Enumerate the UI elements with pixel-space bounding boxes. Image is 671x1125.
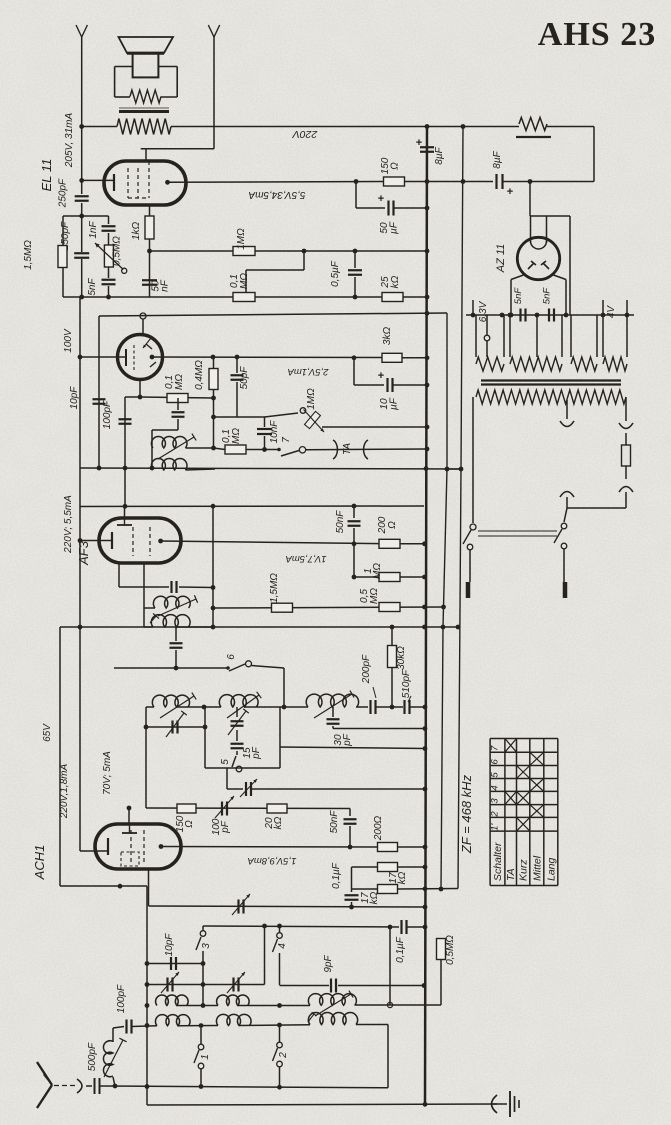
wire y506 line: [80, 505, 424, 508]
AF3 grid dashes: [132, 527, 134, 556]
svg-text:µF: µF: [389, 221, 400, 234]
wire 0.5uF bottom: [354, 277, 356, 297]
switch 4 lever: [273, 939, 278, 952]
wire fuse out: [625, 466, 627, 479]
svg-text:pF: pF: [251, 746, 262, 760]
table X marks: [505, 739, 517, 753]
capacitor 200pF: [369, 700, 371, 714]
resistor 1MΩ y251: [233, 247, 255, 256]
svg-text:250pF: 250pF: [58, 178, 69, 208]
svg-text:50nF: 50nF: [329, 810, 340, 834]
capacitor 9pF: [330, 979, 332, 993]
switch 1 lever: [194, 1050, 199, 1063]
wire 200p-510p: [376, 706, 404, 708]
node bus 627: [625, 313, 630, 318]
svg-text:Ω: Ω: [387, 521, 398, 529]
wire y607 line: [213, 607, 444, 608]
wire B to coil line: [440, 960, 442, 1006]
svg-text:10pF: 10pF: [69, 386, 80, 410]
wire 100pF drop: [124, 397, 126, 506]
svg-text:8µF: 8µF: [434, 146, 445, 164]
wire 220V right: [547, 126, 594, 128]
wire 1nF to pot: [108, 233, 110, 245]
node 220V rail A: [425, 124, 430, 129]
capacitor 1nF: [102, 225, 116, 227]
wire 200 to railA: [398, 846, 426, 848]
svg-text:220V; 5,5mA: 220V; 5,5mA: [63, 495, 74, 554]
svg-text:kΩ: kΩ: [273, 816, 284, 829]
wire 0,4M top: [213, 357, 215, 369]
resistor 150Ω ACH1: [177, 804, 196, 813]
svg-text:50pF: 50pF: [239, 366, 250, 390]
node y867 rail: [423, 865, 428, 870]
ACH1 anode node: [159, 844, 164, 849]
osc coil C5: [216, 1014, 251, 1025]
wire A1-A2: [177, 706, 222, 708]
wire 10uF h: [354, 384, 384, 386]
capacitor 5nF left: [519, 309, 521, 322]
svg-text:+: +: [416, 137, 422, 149]
TA jack right: [364, 440, 368, 459]
wire box left: [204, 707, 206, 768]
pot wiper ring: [122, 268, 127, 273]
node plate 237: [235, 355, 240, 360]
speaker voice coil: [133, 53, 159, 77]
wire y789 line: [251, 788, 425, 790]
node sw2 y1087: [277, 1085, 282, 1090]
wire coil1b right: [186, 469, 216, 470]
node 100V rail A: [425, 311, 430, 316]
output transformer primary: [117, 119, 171, 135]
wire pot to 5nF: [108, 267, 110, 278]
wire y1086 line: [147, 1086, 388, 1088]
wire 50uF stub: [355, 182, 357, 209]
trimmer padder: [237, 900, 239, 914]
switch 1 ring top: [198, 1044, 204, 1050]
node ant y1086: [113, 1084, 118, 1089]
wire 220V line mid: [171, 126, 519, 128]
switch 3 ring: [200, 931, 206, 937]
antenna cup: [77, 1079, 82, 1093]
wire 0.5uF top: [354, 251, 356, 268]
trimmer 100pF ACH1: [221, 802, 223, 816]
wire 5nF bottom: [108, 286, 110, 297]
node x392 y707: [390, 705, 395, 710]
wire primary right down: [625, 397, 627, 421]
capacitor 100pF ABC1: [119, 418, 132, 420]
wire AF3 grid up: [124, 506, 126, 518]
speaker terminal fork right: [208, 25, 214, 37]
capacitor 0,5µF: [348, 269, 362, 271]
trimmer T1: [171, 721, 173, 734]
wire y508 run: [567, 507, 626, 509]
capacitor 30pF: [327, 718, 340, 720]
switch 6 contact: [226, 666, 230, 670]
node y668 176: [174, 666, 179, 671]
wire 15p down: [236, 751, 238, 755]
svg-text:Lang: Lang: [545, 857, 557, 881]
heater winding 1: [476, 357, 504, 371]
wire box right: [279, 707, 281, 768]
node y984 203: [201, 982, 206, 987]
node y963 147: [145, 961, 150, 966]
wire winding1 stub L: [475, 315, 477, 357]
wire x99 drop: [98, 316, 100, 468]
svg-text:MΩ: MΩ: [369, 588, 380, 604]
node sw6 y707: [282, 705, 287, 710]
pot 1MΩ ring: [300, 408, 306, 414]
wire winding3 stub L: [570, 315, 572, 357]
wire 100p to C4: [132, 1025, 158, 1028]
node coil1a 213: [211, 446, 216, 451]
mains primary winding: [476, 390, 626, 404]
node y506 213: [211, 504, 216, 509]
wire cathode to rail: [82, 179, 114, 181]
node 200 rail: [422, 541, 427, 546]
trimmer y789: [245, 782, 247, 796]
ACH1 top tee: [122, 832, 137, 834]
selector cup upper: [560, 421, 574, 427]
node bus 551: [550, 314, 552, 316]
AF3 anode node: [158, 539, 163, 544]
wire y963 line: [147, 963, 203, 965]
svg-text:MΩ: MΩ: [174, 374, 185, 390]
tube ABC1 envelope: [118, 335, 163, 380]
svg-text:1nF: 1nF: [88, 220, 99, 238]
svg-text:500pF: 500pF: [87, 1042, 98, 1071]
wire tap stub: [486, 315, 488, 335]
svg-text:AF3: AF3: [76, 540, 91, 566]
svg-text:1,5MΩ: 1,5MΩ: [269, 573, 280, 603]
wire y668 line: [114, 667, 227, 669]
resistor 17kΩ a: [378, 863, 398, 872]
node y927 264: [262, 924, 267, 929]
wire 9pF to rail: [338, 985, 424, 987]
resistor 20kΩ: [267, 804, 287, 813]
wire 30k to caps: [391, 701, 393, 707]
wire cup to gnd: [492, 1103, 507, 1105]
node y927 390: [388, 925, 393, 930]
wire y668 right: [252, 666, 285, 669]
osc coil C3: [308, 994, 356, 1006]
wire heater bus: [466, 314, 634, 316]
wire ACH1 grid line: [146, 807, 350, 810]
node bus 566: [564, 313, 569, 318]
AF3 cathode: [111, 532, 113, 549]
svg-text:3kΩ: 3kΩ: [382, 327, 393, 346]
wire 17ka to rail: [398, 866, 426, 868]
wire y417 run: [214, 416, 266, 418]
wire x147 long: [146, 886, 148, 1105]
node y627 railC: [456, 625, 461, 630]
wire capb down: [175, 650, 177, 668]
AZ11 anode left: [528, 263, 534, 269]
svg-text:0,5µF: 0,5µF: [330, 260, 341, 287]
svg-text:100pF: 100pF: [116, 984, 127, 1013]
node y886: [118, 884, 123, 889]
ACH1 triode box: [121, 852, 139, 866]
node pot rail: [425, 425, 430, 430]
svg-text:1MΩ: 1MΩ: [236, 228, 247, 250]
AF3 top grid tee: [117, 524, 132, 526]
wire sw2 top: [279, 1027, 281, 1042]
wire sw3 drop: [202, 951, 204, 963]
node y907 rail: [423, 905, 428, 910]
wire coil1a right: [186, 447, 214, 449]
svg-text:1,5MΩ: 1,5MΩ: [23, 240, 34, 270]
wire 10uF to rail: [393, 384, 427, 386]
wire 50nF ACH1 drop: [349, 809, 351, 817]
wire 50nF to plate: [353, 528, 355, 577]
svg-text:1kΩ: 1kΩ: [131, 222, 142, 241]
wire C2-C3: [238, 1005, 310, 1007]
wire 0,1uF to y907: [351, 902, 353, 907]
node 100pF y468: [123, 466, 128, 471]
svg-text:µF: µF: [389, 397, 400, 410]
svg-text:Ω: Ω: [184, 820, 195, 828]
fuse: [622, 445, 631, 466]
wire 30pF down: [332, 726, 334, 729]
switch 3 lever: [196, 937, 201, 950]
wire A2-A3: [244, 706, 308, 708]
svg-text:5,5V,34,5mA: 5,5V,34,5mA: [248, 189, 305, 200]
AF3 coil a: [153, 596, 190, 608]
node y607 railB: [441, 605, 446, 610]
wire capb stub: [175, 627, 177, 641]
osc coil C6: [308, 1013, 357, 1025]
antenna symbol: [37, 1062, 52, 1085]
svg-text:220V,1,8mA: 220V,1,8mA: [59, 764, 70, 820]
osc coil C4: [155, 1015, 190, 1026]
node y748 rail: [423, 746, 428, 751]
wire winding2 stub R: [561, 315, 563, 357]
svg-text:Schalter: Schalter: [492, 842, 504, 881]
capacitor 50µF +: [387, 201, 389, 216]
EL11 grid dashes: [127, 168, 129, 198]
wire C4-C5: [178, 1025, 218, 1027]
wire x146 filter left: [145, 707, 147, 808]
resistor 1MΩ AF3: [379, 573, 400, 582]
wire to 100pF: [125, 396, 140, 398]
wire pot to rail: [322, 426, 427, 428]
RF coil A1 adjuster: [160, 696, 194, 718]
capacitor 15pF: [231, 743, 244, 745]
trimmer T2: [231, 720, 244, 722]
wire rail seg1: [81, 127, 83, 195]
switch 6 ring: [246, 661, 252, 667]
node x147 y1005: [145, 1003, 150, 1008]
output transformer secondary: [119, 110, 169, 113]
wire to fuse: [625, 433, 627, 445]
node y789 rail: [423, 787, 428, 792]
wire 1.5M bottom: [62, 267, 64, 297]
node y627 railB: [441, 625, 446, 630]
svg-text:kΩ: kΩ: [397, 871, 408, 884]
node y984 147: [145, 982, 150, 987]
wire sw5 down: [226, 768, 228, 789]
node y251 0.5uF: [353, 249, 358, 254]
wire T2 stub: [236, 707, 238, 717]
capacitor coil coupling: [172, 411, 185, 413]
ring x390 y1005: [387, 1002, 392, 1007]
node plate rail C: [461, 179, 466, 184]
svg-text:4: 4: [490, 785, 501, 790]
wire plate line: [168, 181, 385, 184]
pot 1MΩ body: [305, 411, 321, 428]
node x147 y1086: [145, 1084, 150, 1089]
svg-text:AHS 23: AHS 23: [538, 16, 656, 53]
speaker magnet frame: [115, 66, 133, 68]
wire x213 down: [212, 506, 214, 627]
svg-text:2: 2: [278, 1052, 289, 1059]
wire x351 drop2: [351, 889, 353, 892]
wire y251 line: [150, 250, 428, 252]
node 213 y587: [211, 585, 216, 590]
node y297 0.5uF: [353, 295, 358, 300]
wire 100V line: [99, 313, 447, 316]
svg-text:200Ω: 200Ω: [373, 815, 384, 841]
node y468 99: [97, 466, 102, 471]
resistor 25kΩ: [382, 293, 403, 302]
wire y889 line: [352, 888, 378, 890]
wire AF3 bottom jog: [143, 563, 145, 587]
RF coil A1: [152, 695, 189, 707]
resistor 0,1MΩ y297: [233, 293, 255, 302]
RF coil A2: [219, 695, 258, 707]
node y251 left: [147, 249, 152, 254]
wire ant to cap: [86, 1085, 92, 1087]
wire 1M line: [354, 576, 379, 578]
RF coil A3 adjuster: [314, 694, 352, 718]
node plate 354: [352, 355, 357, 360]
node avc 10nF: [262, 447, 267, 452]
fuse cup lower: [619, 487, 633, 493]
wire primary tap: [566, 400, 568, 419]
mains plug prong left: [466, 582, 471, 598]
wire AZ11 cathode left: [511, 275, 524, 280]
wire y867 line: [352, 866, 378, 868]
svg-text:EL 11: EL 11: [39, 159, 54, 192]
wire sw4 drop: [279, 953, 281, 985]
node bus 603: [601, 313, 606, 318]
wire C6 right jog: [356, 1024, 388, 1026]
node y927 rail: [423, 925, 428, 930]
svg-text:TA: TA: [342, 443, 353, 455]
fuse cup upper: [619, 423, 633, 429]
node AF3 cath rail: [78, 538, 83, 543]
svg-text:1,5V,9,8mA: 1,5V,9,8mA: [248, 855, 297, 866]
switch 7 ring: [299, 447, 305, 453]
svg-text:pF: pF: [342, 733, 353, 747]
capacitor 10pF osc: [170, 957, 172, 970]
resistor 0,4MΩ: [209, 369, 218, 390]
switch 7 lever: [281, 451, 299, 457]
voltage selector ring: [470, 524, 476, 530]
node cathode rail: [79, 178, 84, 183]
node jog B: [445, 467, 450, 472]
wire sw1 top: [200, 1028, 202, 1044]
wire sw3 stub: [202, 926, 204, 931]
wire 1.5M top: [62, 216, 64, 246]
wire step: [303, 251, 305, 270]
wire winding2 stub L: [509, 315, 511, 357]
wire fuse down: [625, 492, 627, 508]
wire plug right: [563, 549, 565, 582]
svg-text:9pF: 9pF: [323, 954, 334, 972]
capacitor 10µF: [386, 378, 388, 392]
trimmer T3: [166, 978, 168, 992]
AZ11 anode right: [543, 263, 549, 269]
wire 1nF top: [108, 216, 110, 224]
osc coil C2: [217, 995, 250, 1005]
ABC1 grid dash: [133, 345, 135, 370]
wire 30k down: [391, 667, 393, 701]
AZ11 filament loop: [531, 241, 547, 249]
wire x390 drop: [389, 927, 391, 1005]
wire 4V stub b: [626, 300, 628, 315]
heater winding 2: [510, 357, 562, 371]
capacitor 50nF AF3: [348, 520, 361, 522]
capacitor 50nF ACH1: [344, 818, 357, 820]
wire EL11 grid top: [145, 149, 147, 162]
capacitor 0,1µF a: [345, 894, 359, 896]
field coil choke: [519, 118, 547, 131]
switch 6 lever: [229, 664, 245, 671]
RF coil A3: [306, 694, 358, 707]
wire 50nF AF3 drop: [353, 506, 355, 518]
osc coil C3 adjuster: [315, 994, 351, 1016]
svg-text:0,1µF: 0,1µF: [395, 936, 406, 963]
node ABC1 bottom: [138, 395, 143, 400]
node 220V rail C: [461, 124, 466, 129]
rail jog y469: [447, 468, 461, 470]
svg-text:AZ 11: AZ 11: [495, 244, 507, 274]
wire C3 right: [355, 1004, 442, 1006]
EL11 anode node: [165, 180, 170, 185]
winding tap ring: [484, 335, 490, 341]
wire box bottom: [205, 767, 280, 769]
ABC1 anode node: [150, 355, 155, 360]
svg-text:ACH1: ACH1: [32, 845, 47, 881]
wire A3 to 200pF: [356, 706, 368, 708]
IF coil 1b: [151, 459, 187, 470]
wire ABC1 bottom stub: [139, 380, 141, 398]
wire rail seg3: [81, 259, 83, 297]
AF3 coil a adjuster: [158, 599, 196, 616]
svg-text:4V: 4V: [606, 305, 617, 319]
wire 3k to rail: [402, 357, 427, 359]
node 0,4M y398: [211, 396, 216, 401]
resistor 0,5MΩ B: [437, 939, 446, 960]
node y907 351: [349, 905, 354, 910]
svg-text:65V: 65V: [42, 723, 53, 742]
wire y748 line: [280, 747, 425, 749]
wire C5-C6: [239, 1024, 310, 1027]
wire coil box left: [143, 587, 145, 627]
switch 2 ring bottom: [277, 1061, 283, 1067]
wire rail seg2: [81, 203, 83, 252]
wire cap jog: [177, 419, 179, 430]
node y506 354: [352, 504, 357, 509]
resistor 0,1MΩ avc: [225, 445, 246, 454]
node 5nF bottom: [106, 295, 111, 300]
svg-text:4: 4: [277, 943, 288, 949]
node 8uF right: [528, 179, 533, 184]
wire 30k drop: [391, 627, 393, 645]
wire plug left: [469, 550, 471, 582]
svg-text:kΩ: kΩ: [369, 891, 380, 904]
svg-text:8µF: 8µF: [492, 150, 503, 168]
